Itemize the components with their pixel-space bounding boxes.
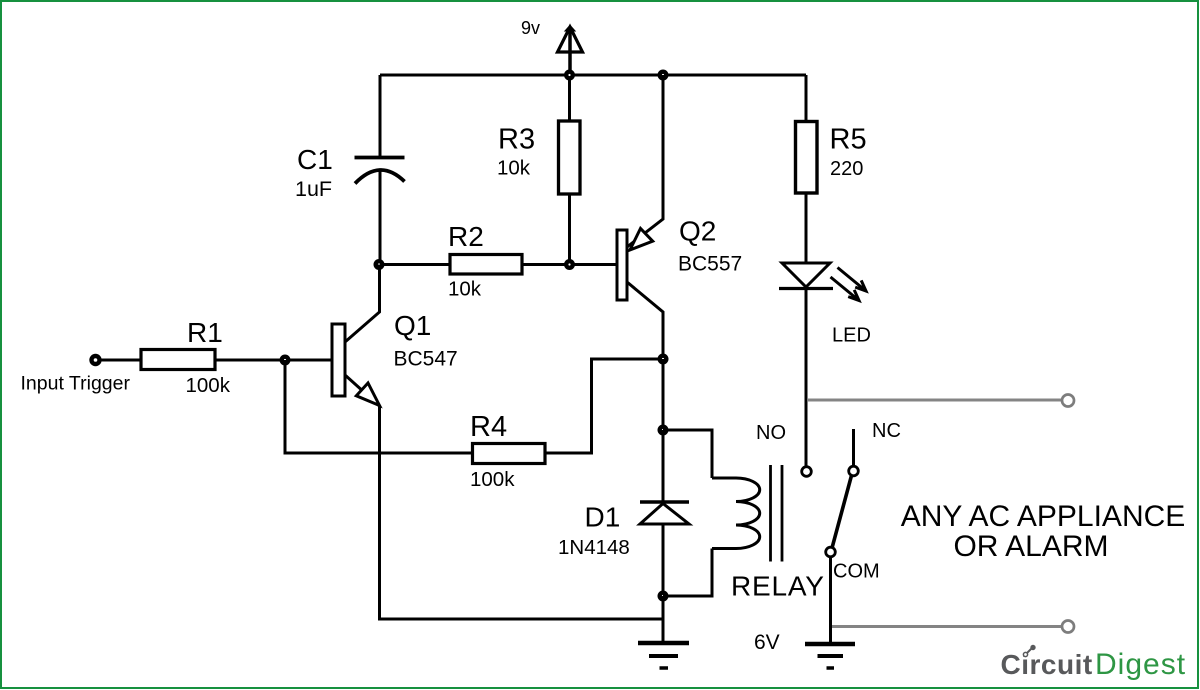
wire relay bottom lead <box>663 549 712 597</box>
wire Q1 emitter down <box>378 405 381 619</box>
resistor R1 <box>141 350 215 370</box>
svg-text:R3: R3 <box>498 124 535 156</box>
wire R3 top lead <box>568 75 571 121</box>
svg-text:9v: 9v <box>521 18 540 38</box>
svg-text:D1: D1 <box>585 502 621 533</box>
wire gray output bottom <box>832 625 1061 628</box>
svg-text:R4: R4 <box>470 411 507 443</box>
contact COM <box>826 547 836 557</box>
logo CircuitDigest <box>1001 645 1187 681</box>
svg-text:R2: R2 <box>448 221 484 252</box>
wire C1 top lead <box>379 75 382 156</box>
wire R5 top lead <box>805 75 808 122</box>
svg-text:Q1: Q1 <box>394 310 431 341</box>
resistor R3 <box>559 121 581 194</box>
transistor Q2 <box>617 75 663 359</box>
node junction relay bottom <box>658 591 669 602</box>
svg-text:LED: LED <box>832 325 871 347</box>
node junction R3-R2-Q2 <box>564 259 575 270</box>
svg-text:1uF: 1uF <box>295 177 332 201</box>
svg-text:1N4148: 1N4148 <box>558 536 630 559</box>
wire COM down <box>829 557 832 643</box>
svg-text:C1: C1 <box>297 144 333 175</box>
contact NO <box>802 467 812 477</box>
input terminal <box>92 356 100 364</box>
svg-text:Input Trigger: Input Trigger <box>21 373 131 395</box>
wire R5 to LED <box>805 193 808 264</box>
contact NC <box>849 466 859 476</box>
svg-text:10k: 10k <box>448 278 482 301</box>
LED arrows <box>831 268 867 301</box>
LED D2 <box>779 263 833 289</box>
svg-text:220: 220 <box>830 158 863 180</box>
terminal bottom right <box>1062 621 1074 633</box>
svg-text:Circuit: Circuit <box>1001 649 1093 680</box>
svg-text:Digest: Digest <box>1095 648 1186 681</box>
node junction 9v rail <box>564 70 575 81</box>
wire ground lead relay <box>662 596 665 643</box>
wire input to R1 <box>101 359 142 362</box>
svg-text:ANY AC APPLIANCE: ANY AC APPLIANCE <box>901 500 1186 533</box>
svg-text:R1: R1 <box>187 317 223 348</box>
power supply 9v symbol <box>558 26 583 75</box>
svg-text:R5: R5 <box>830 124 867 156</box>
capacitor C1 <box>355 158 405 184</box>
switch lever <box>832 476 852 549</box>
wire gray output top <box>808 399 1061 402</box>
wire R1 to Q1 base <box>215 359 332 362</box>
wire relay top lead <box>663 430 712 478</box>
wire R4 to collector node <box>545 359 663 453</box>
wire NC lead <box>852 429 855 466</box>
svg-text:BC547: BC547 <box>394 348 458 371</box>
transistor Q1 <box>332 265 380 407</box>
wire R3 bottom lead <box>568 194 571 265</box>
wire bottom rail <box>378 618 663 621</box>
resistor R5 <box>796 122 818 194</box>
wire LED to NO contact <box>805 289 808 467</box>
relay core bars <box>771 465 783 562</box>
node junction Q2 emitter rail <box>658 70 669 81</box>
ground COM <box>805 644 855 668</box>
svg-text:OR ALARM: OR ALARM <box>953 530 1108 563</box>
svg-text:NO: NO <box>756 422 786 444</box>
node junction C1-R2-Q1 <box>374 259 385 270</box>
svg-text:RELAY: RELAY <box>731 571 825 602</box>
resistor R2 <box>450 255 522 275</box>
svg-text:COM: COM <box>833 561 880 583</box>
svg-text:BC557: BC557 <box>678 253 742 276</box>
resistor R4 <box>473 444 546 464</box>
relay coil <box>712 478 760 549</box>
svg-text:Q2: Q2 <box>679 216 716 247</box>
svg-text:NC: NC <box>872 420 901 442</box>
svg-text:10k: 10k <box>497 157 531 180</box>
wire base branch down <box>285 360 473 453</box>
node junction Q2 collector <box>658 354 669 365</box>
svg-text:6V: 6V <box>754 631 780 654</box>
wire D1 branch <box>662 430 665 596</box>
wire top rail <box>380 74 806 77</box>
wire collector to relay top node <box>662 359 665 430</box>
ground relay <box>638 643 689 668</box>
svg-text:100k: 100k <box>470 468 515 491</box>
node junction relay top <box>658 425 669 436</box>
wire base row Q2 <box>379 263 617 266</box>
node junction base <box>280 355 291 366</box>
svg-text:100k: 100k <box>186 374 231 397</box>
wire C1 bottom lead <box>379 170 382 265</box>
diode D1 <box>640 502 689 524</box>
terminal top right <box>1062 395 1074 407</box>
